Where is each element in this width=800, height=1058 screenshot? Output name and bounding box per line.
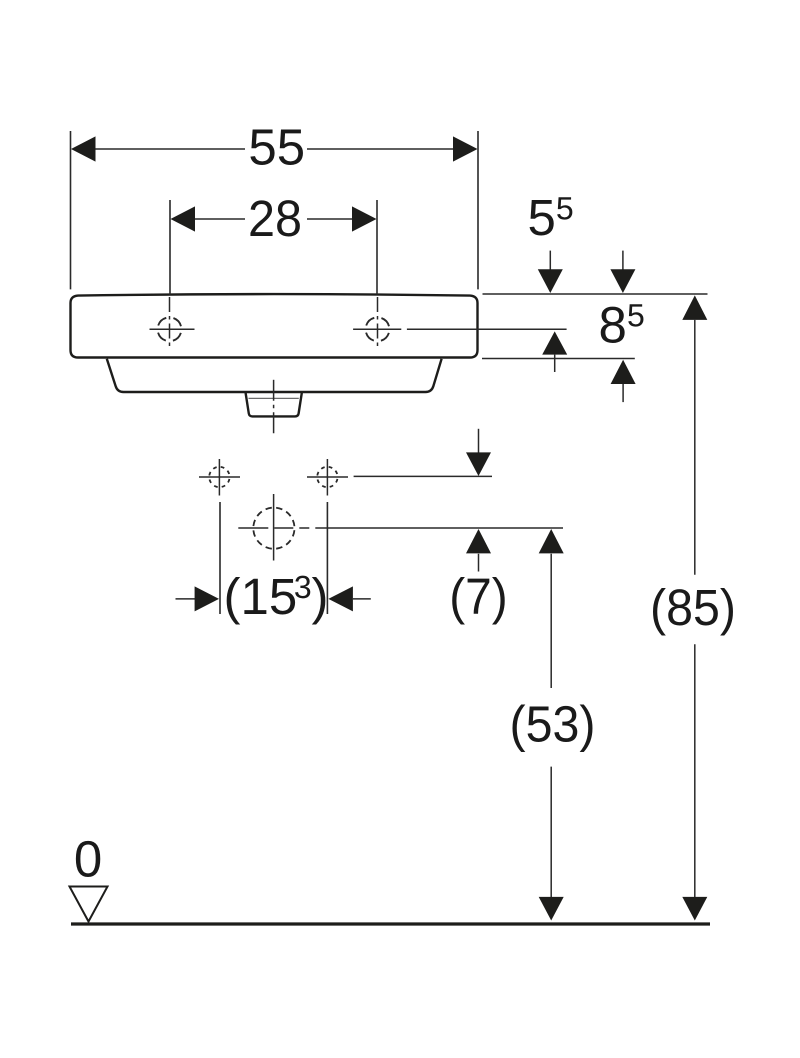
dim 7 up arrow (466, 529, 491, 553)
extension line 28 right (376, 200, 378, 295)
dim 85 top arrow (682, 295, 707, 320)
dim 5-5 down arrow (549, 251, 551, 270)
drain centerline (273, 380, 275, 434)
arrowhead 55 right (453, 136, 478, 161)
extension line 15-3 left (219, 502, 221, 614)
tap hole right centerline vertical (377, 297, 379, 349)
dim 8-5 down arrow (622, 251, 624, 270)
dim 53 line upper (550, 554, 552, 688)
reference line top rim (483, 293, 708, 295)
dim 8-5 up arrow (611, 360, 636, 384)
fixing hole right circle (317, 467, 337, 487)
dim 15-3 left arrow (176, 598, 196, 600)
reference line rim bottom (482, 358, 635, 360)
washbasin rim outline (71, 294, 478, 357)
drain outlet box (246, 393, 302, 417)
svg-text:55: 55 (248, 119, 305, 176)
dim 85 line lower (694, 644, 696, 897)
reference line trap level (330, 527, 563, 529)
dim 53 top arrow (539, 529, 564, 553)
dimension line 55 (95, 148, 245, 150)
extension line 55 left (70, 131, 72, 289)
svg-text:28: 28 (248, 190, 302, 247)
tap hole right crosshair horizontal (353, 328, 401, 330)
tap hole right circle (366, 317, 390, 341)
arrowhead 55 left (71, 136, 96, 161)
fixing hole right crosshair (307, 476, 348, 478)
svg-text:5: 5 (528, 189, 556, 246)
ground line (71, 922, 710, 925)
arrowhead 28 right (352, 206, 377, 231)
extension line 28 left (169, 200, 171, 295)
dim 15-3 right arrow (328, 586, 353, 611)
svg-text:8: 8 (599, 296, 627, 353)
datum triangle (70, 887, 108, 922)
dim 7 down arrow (478, 429, 480, 453)
washbasin bowl apron (107, 359, 442, 392)
tap hole left circle (158, 317, 182, 341)
fixing hole left crosshair (199, 476, 240, 478)
arrowhead 28 left (171, 206, 196, 231)
tap hole left centerline vertical (169, 297, 171, 349)
dim 53 line lower (550, 767, 552, 897)
reference line tap hole level (407, 328, 567, 330)
reference line fixing holes level (354, 475, 492, 477)
svg-text:(85): (85) (650, 579, 736, 636)
dim 5-5 up arrow (542, 331, 567, 354)
dim 53 bottom arrow (539, 897, 564, 921)
extension line 15-3 right (326, 502, 328, 614)
svg-text:0: 0 (74, 831, 102, 888)
dim 85 line upper (694, 320, 696, 575)
fixing hole left circle (209, 467, 229, 487)
trap centerline vertical (273, 494, 275, 561)
svg-text:(7): (7) (449, 568, 508, 625)
tap hole left crosshair horizontal (150, 328, 195, 330)
dim 85 bottom arrow (682, 897, 707, 921)
svg-text:): ) (312, 568, 329, 625)
dimension line 28 (194, 218, 245, 220)
drain inner flange line (249, 397, 299, 399)
extension line 55 right (477, 131, 479, 289)
trap circle dashed (253, 508, 294, 549)
trap centerline horizontal (238, 527, 330, 529)
svg-text:(53): (53) (510, 696, 596, 753)
svg-text:(15: (15 (224, 568, 298, 625)
